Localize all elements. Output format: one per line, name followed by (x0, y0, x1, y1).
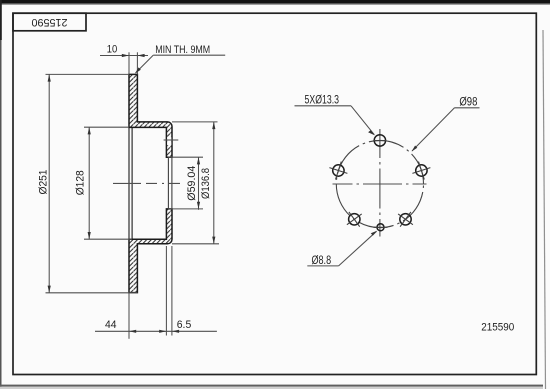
dim O59.04 line (198, 157, 200, 210)
svg-text:Ø136.8: Ø136.8 (200, 168, 212, 199)
scan edge: bottom grey line (0, 385, 543, 387)
bolt hole gap in top flange (167, 137, 171, 146)
svg-text:Ø59.04: Ø59.04 (186, 166, 198, 201)
svg-text:44: 44 (105, 319, 117, 331)
scan edge: top black bar (0, 0, 550, 4)
svg-text:MIN TH. 9MM: MIN TH. 9MM (155, 44, 210, 56)
leader O98 (455, 107, 480, 109)
dim 10 line (100, 55, 148, 57)
svg-text:6.5: 6.5 (177, 319, 192, 331)
small hole O8.8 bottom (270) (377, 224, 384, 231)
leader 5XO13.3 (295, 105, 352, 107)
bolt hole lower-right (306) (400, 214, 411, 225)
horizontal centerline (333, 183, 427, 185)
dim 10 extension lines (128, 52, 130, 74)
dim O251 line (48, 74, 50, 292)
bolt circle O98 dash-dot (336, 140, 423, 227)
bore lines between flange halves (167, 157, 169, 209)
bolt hole centerline in flange (164, 139, 179, 141)
dim O136.8 extension top (172, 121, 218, 123)
svg-text:5XØ13.3: 5XØ13.3 (305, 92, 340, 106)
scan edge: left dark line (0, 0, 2, 389)
svg-text:Ø251: Ø251 (38, 170, 50, 195)
MIN TH. 9MM leader (153, 54, 225, 56)
bolt hole top (90) (374, 135, 385, 146)
title box top-left (13, 13, 86, 31)
svg-text:Ø128: Ø128 (75, 170, 87, 195)
dim 44 / 6.5 extension lines (128, 293, 130, 339)
bolt hole upper-right (18) (416, 165, 427, 176)
dim O251 extension bottom (46, 292, 138, 294)
dim O128 line (88, 127, 90, 239)
dim O136.8 line (213, 122, 215, 244)
svg-text:10: 10 (107, 44, 118, 56)
dim O59.04 extension bottom (168, 208, 203, 210)
dim O128 extension bottom (84, 238, 132, 240)
hatched solid: top half (129, 74, 172, 157)
inner face line (middle region) (131, 127, 133, 239)
svg-text:Ø98: Ø98 (459, 95, 477, 109)
disc left face line (middle region) (128, 127, 130, 239)
svg-text:215590: 215590 (481, 322, 514, 334)
leader O8.8 (307, 265, 338, 267)
dim O128 extension top (84, 126, 129, 128)
dim O136.8 extension bottom (172, 243, 219, 245)
dim O59.04 extension top (168, 156, 203, 158)
bolt hole upper-left (162) (333, 165, 344, 176)
dim O251 extension top (46, 73, 130, 75)
svg-text:Ø8.8: Ø8.8 (312, 253, 332, 267)
vertical centerline (379, 129, 381, 237)
scan edge: right faint line (543, 30, 546, 389)
svg-text:215590: 215590 (32, 16, 68, 28)
centerline of left view (113, 182, 180, 184)
dim 44 line (95, 330, 217, 332)
bolt hole lower-left (234) (349, 214, 360, 225)
hatched solid: bottom half (129, 209, 172, 293)
